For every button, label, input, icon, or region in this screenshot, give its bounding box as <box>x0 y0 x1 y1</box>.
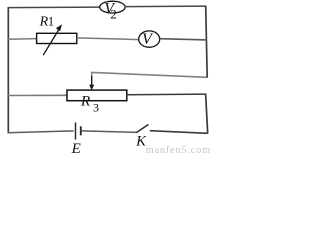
svg-text:E: E <box>71 141 81 154</box>
voltmeter V <box>139 31 160 48</box>
svg-text:manfen5.com: manfen5.com <box>146 145 211 154</box>
voltmeter V2 <box>100 0 125 21</box>
wire row2 right <box>160 39 207 40</box>
wire row3 right <box>127 93 206 96</box>
wire wiper horizontal <box>92 72 207 77</box>
svg-text:R: R <box>80 93 90 109</box>
wire top right segment <box>125 5 206 8</box>
wire bottom right <box>150 131 208 134</box>
switch K lever <box>137 124 149 132</box>
battery E <box>76 122 81 139</box>
resistor R3 <box>67 90 127 101</box>
resistor R1 <box>37 24 77 55</box>
wire row2 left <box>8 38 37 41</box>
wire top left segment <box>8 6 100 9</box>
wire bottom left <box>8 131 74 133</box>
svg-text:2: 2 <box>110 6 117 21</box>
wire row3 left <box>8 94 68 96</box>
wire left vertical <box>7 7 9 133</box>
wire right vertical upper (top corner to wiper junction) <box>206 6 208 78</box>
svg-text:1: 1 <box>48 14 55 29</box>
wiper arrow onto R3 <box>89 72 94 90</box>
wire row2 middle <box>77 38 139 40</box>
wire bottom middle <box>82 131 137 133</box>
wire right vertical lower <box>206 93 208 133</box>
svg-text:3: 3 <box>93 100 99 114</box>
